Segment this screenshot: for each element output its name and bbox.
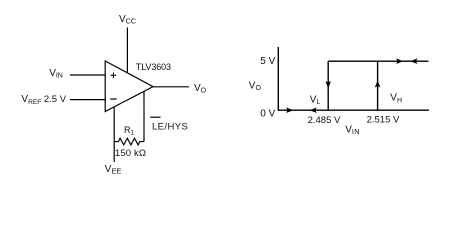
arrow left on baseline: [310, 107, 317, 113]
svg-text:2.515 V: 2.515 V: [367, 114, 400, 125]
op-amp plus input marker: [111, 73, 117, 79]
graph 0V baseline: [278, 109, 429, 111]
arrow down on falling edge: [325, 81, 331, 88]
svg-text:LE/HYS: LE/HYS: [152, 121, 188, 132]
resistor R1 zigzag: [114, 138, 144, 145]
wire VIN input: [70, 74, 106, 76]
graph falling edge at 2.485 V: [327, 61, 329, 110]
wire VEE pin down: [113, 107, 115, 163]
graph rising edge at 2.515 V: [377, 61, 379, 110]
svg-text:VEE: VEE: [105, 164, 122, 176]
wire LE/HYS pin down: [143, 92, 145, 142]
svg-text:5 V: 5 V: [260, 56, 275, 67]
label LE/HYS with overline on LE: [150, 117, 188, 132]
arrow right on top line: [396, 58, 403, 64]
wire VREF input: [70, 99, 106, 101]
arrow up on rising edge: [375, 80, 381, 87]
svg-text:2.485 V: 2.485 V: [308, 115, 341, 126]
svg-text:VIN: VIN: [345, 124, 360, 136]
svg-text:150 kΩ: 150 kΩ: [115, 148, 146, 159]
op-amp U1 comparator TLV3603 triangle: [105, 61, 153, 112]
arrow left on top line: [410, 58, 417, 64]
arrow right on baseline: [286, 107, 293, 113]
svg-text:0 V: 0 V: [260, 109, 275, 120]
graph 5V top line: [328, 60, 428, 62]
wire VCC supply: [126, 28, 128, 74]
svg-text:TLV3603: TLV3603: [136, 62, 171, 72]
wire output: [153, 86, 189, 88]
graph: VO y-axis: [277, 47, 279, 111]
op-amp minus input marker: [110, 98, 116, 100]
svg-text:VCC: VCC: [119, 14, 136, 26]
